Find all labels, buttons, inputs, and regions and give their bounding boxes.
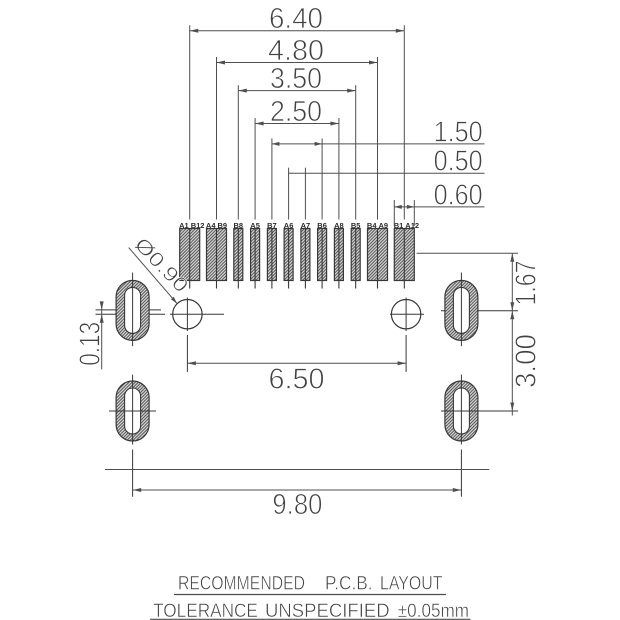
dimension 3.50 line [238,90,355,92]
svg-text:A7: A7 [301,221,311,230]
dimension 0.50 line [289,172,485,174]
leader line for Ø0.90 [129,248,178,304]
svg-text:A12: A12 [405,221,419,230]
upper-right oval vertical centerline [460,273,462,347]
dimension 9.80 outer line [105,469,489,471]
hole Ø0.90 right circle [391,300,420,329]
shield slot pad lower-left hole [125,388,141,434]
shield slot pad lower-right hole [453,388,469,434]
dimension 1.50 extension lines [271,138,273,219]
shield slot pad upper-right outer [445,280,478,340]
pad B5 centerline [355,229,357,289]
pad B4A9 centerline [377,229,379,289]
svg-text:3.00: 3.00 [511,334,543,388]
pad B6 [318,229,327,281]
dimension 6.40 extension lines [189,25,191,219]
pad A5 centerline [254,229,256,289]
pad B4A9 [368,229,388,281]
pad A1B12 centerline [189,229,191,289]
dimension 3.50 extension lines [237,85,239,219]
svg-text:6.40: 6.40 [269,3,323,35]
upper-left oval horizontal centerline / 0.13 extension [96,309,162,311]
pad B5 [351,229,360,281]
pad A8 centerline [338,229,340,289]
dimension 0.50 extension lines [288,168,290,220]
svg-text:0.13: 0.13 [75,322,107,366]
svg-text:6.50: 6.50 [269,363,325,395]
left hole horizontal centerline / 0.13 extension [96,313,225,315]
pad B6 centerline [321,229,323,289]
dimension 9.80 line [133,489,462,491]
tolerance underline [150,618,471,620]
hole left vertical centerline [186,298,188,372]
svg-text:2.50: 2.50 [270,96,322,128]
dimension 6.50 line [187,362,406,364]
dimension 0.60 extension lines [393,200,395,226]
hole right vertical centerline [405,298,407,372]
dimension 2.50 line [255,123,339,125]
pad B1A12 centerline [403,229,405,289]
pad B8 [234,229,243,281]
shield slot pad upper-left outer [116,280,149,340]
svg-text:A4: A4 [206,221,216,230]
svg-text:B8: B8 [234,221,244,230]
pad A6 [284,229,293,281]
svg-text:±0.05mm: ±0.05mm [398,600,469,620]
dimension 0.13 line [101,303,103,370]
pad B8 centerline [237,229,239,289]
dimension 0.60 line [394,206,484,208]
svg-text:B9: B9 [218,221,228,230]
pad B1A12 [394,229,414,281]
svg-text:B6: B6 [317,221,327,230]
lower-right oval vertical centerline / 9.80 extension [460,375,462,497]
lower-right oval horizontal centerline / extension to dim [441,410,518,412]
svg-text:UNSPECIFIED: UNSPECIFIED [265,600,390,620]
svg-text:9.80: 9.80 [272,489,322,521]
pad B7 centerline [271,229,273,289]
dimension 4.80 line [217,62,378,64]
svg-text:A6: A6 [284,221,294,230]
svg-text:A5: A5 [250,221,260,230]
dimension 2.50 extension lines [254,118,256,220]
svg-text:0.50: 0.50 [434,146,483,178]
shield slot pad upper-left hole [125,287,141,333]
svg-text:1.50: 1.50 [434,116,483,148]
pad A7 [301,229,310,281]
pad A7 centerline [304,229,306,289]
lower-left oval vertical centerline / 9.80 extension [132,375,134,497]
svg-text:B7: B7 [267,221,277,230]
pad B7 [267,229,276,281]
svg-text:1.67: 1.67 [511,261,543,306]
shield slot pad lower-left outer [116,381,149,441]
pad A1B12 [180,229,200,281]
svg-text:P.C.B.: P.C.B. [325,573,373,594]
dimension 4.80 extension lines [216,57,218,220]
svg-text:A9: A9 [379,221,389,230]
svg-text:B5: B5 [351,221,361,230]
hole Ø0.90 left circle [173,300,202,329]
svg-text:A1: A1 [179,221,189,230]
upper-left oval vertical centerline [132,273,134,347]
pad A4B9 [207,229,227,281]
right hole horizontal centerline [390,313,424,315]
svg-text:B1: B1 [394,221,404,230]
upper-right oval horizontal centerline / extension to dim [441,310,518,312]
pad A6 centerline [288,229,290,289]
title underline [174,594,446,596]
shield slot pad lower-right outer [445,381,478,441]
dimension 1.67/3.00 extension line at pad row [417,252,518,254]
shield slot pad upper-right hole [453,287,469,333]
pad A4B9 centerline [216,229,218,289]
lower-left oval horizontal centerline [109,410,156,412]
svg-text:RECOMMENDED: RECOMMENDED [178,573,305,594]
dimension 1.67/3.00 vertical line [511,253,513,415]
svg-text:A8: A8 [334,221,344,230]
dimension 1.50 line [272,143,485,145]
svg-text:B4: B4 [367,221,377,230]
svg-text:LAYOUT: LAYOUT [380,573,443,594]
pad A5 [251,229,260,281]
svg-text:3.50: 3.50 [270,63,322,95]
svg-text:B12: B12 [191,221,205,230]
svg-text:TOLERANCE: TOLERANCE [153,600,258,620]
dimension 6.40 line [190,30,405,32]
svg-text:0.60: 0.60 [434,179,483,211]
pad A8 [334,229,343,281]
